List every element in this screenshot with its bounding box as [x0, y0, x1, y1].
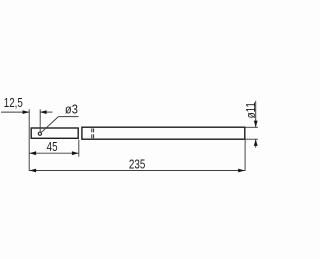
- dimension line 45: [29, 152, 79, 154]
- extension line hole center: [39, 109, 41, 132]
- hole Ø3: [38, 132, 41, 135]
- svg-text:12,5: 12,5: [4, 97, 23, 110]
- arrow Ø11 up-pointing: [254, 139, 258, 146]
- extension line step: [78, 140, 80, 157]
- dimension line Ø11 upper: [255, 101, 257, 127]
- svg-text:45: 45: [47, 141, 58, 154]
- arrow 45 right: [72, 151, 79, 155]
- arrow Ø11 down-pointing: [254, 121, 258, 128]
- svg-text:ø11: ø11: [245, 102, 258, 118]
- arrow 235 left: [30, 169, 37, 173]
- dimension line 12,5 left part: [1, 111, 29, 113]
- hidden line 1 (thread relief): [91, 128, 93, 138]
- extension line right top: [245, 126, 258, 128]
- rod tip section (left, with hole): [31, 128, 78, 138]
- hidden line 2 (thread relief): [93, 128, 95, 138]
- svg-text:ø3: ø3: [65, 102, 78, 117]
- extension line left end: [28, 109, 30, 171]
- leader shoulder: [58, 116, 78, 118]
- dimension line 235: [29, 170, 245, 172]
- arrow 12,5 left-pointing: [40, 110, 47, 114]
- svg-text:235: 235: [129, 159, 145, 172]
- arrow 45 left: [30, 151, 37, 155]
- extension line right end: [244, 140, 246, 171]
- extension line right bottom: [245, 138, 258, 140]
- arrow 12,5 right-pointing: [23, 110, 30, 114]
- leader line for hole: [42, 117, 59, 133]
- dimension line Ø11 lower: [255, 140, 257, 148]
- dimension line 12,5 right part: [40, 111, 52, 113]
- arrow 235 right: [238, 169, 245, 173]
- rod main body (Ø11 shank): [82, 127, 245, 139]
